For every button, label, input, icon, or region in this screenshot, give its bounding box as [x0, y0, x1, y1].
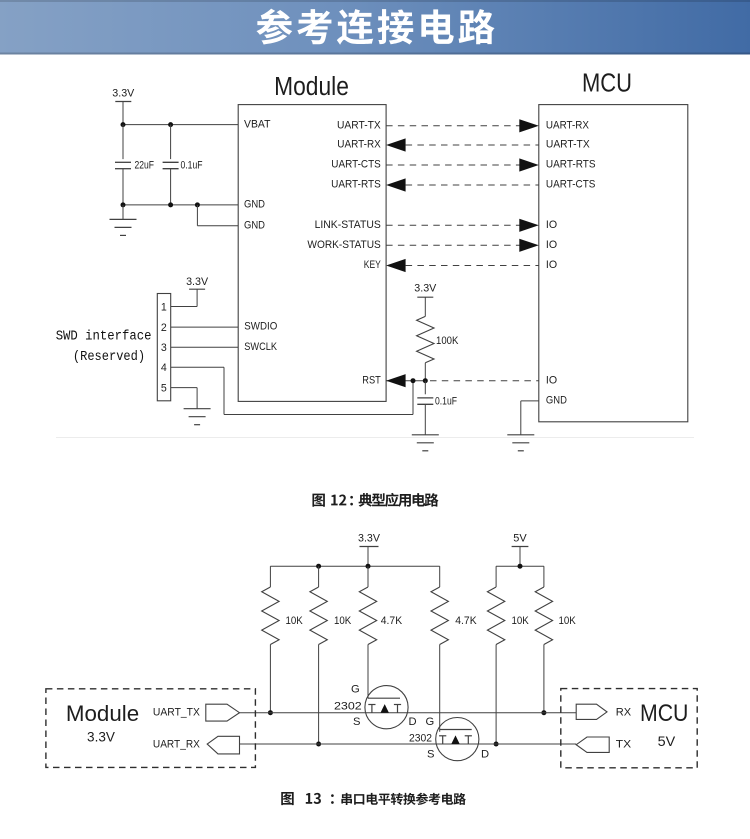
svg-text:UART_TX: UART_TX: [153, 707, 201, 719]
svg-text:KEY: KEY: [364, 259, 381, 271]
svg-text:IO: IO: [546, 239, 557, 251]
svg-text:5V: 5V: [513, 533, 527, 545]
svg-text:VBAT: VBAT: [244, 118, 271, 130]
svg-text:RX: RX: [616, 707, 631, 719]
svg-text:4.7K: 4.7K: [455, 615, 476, 627]
wire MCU GND to ground: [521, 400, 539, 402]
wire UART_RX line: [240, 743, 577, 745]
svg-text:S: S: [353, 716, 360, 728]
svg-text:TX: TX: [616, 739, 631, 751]
svg-text:100K: 100K: [436, 335, 458, 347]
svg-text:GND: GND: [244, 199, 265, 211]
svg-text:WORK-STATUS: WORK-STATUS: [307, 239, 380, 251]
arrow into MCU IO 2: [519, 239, 539, 252]
resistor R4 4.7K: [359, 566, 402, 644]
node R2/TX junction: [268, 710, 273, 715]
node junction GND/C1: [121, 202, 126, 207]
wire pin1 to 3.3V: [171, 306, 197, 308]
wire R7 to TX line: [543, 645, 545, 713]
svg-text:UART-CTS: UART-CTS: [546, 179, 596, 191]
svg-text:GND: GND: [244, 220, 265, 232]
svg-text:5V: 5V: [658, 733, 676, 749]
power rail 3.3V (top left): [112, 88, 135, 125]
resistor R7 10K: [535, 566, 576, 644]
arrow into module RST: [386, 374, 406, 387]
svg-text:3.3V: 3.3V: [87, 729, 115, 745]
wire GND rail to module: [123, 204, 238, 206]
power rail 3.3V (pull-up): [414, 283, 437, 317]
wire 5V rail: [496, 565, 544, 567]
wire pin2 to SWDIO: [171, 326, 239, 328]
svg-text:SWDIO: SWDIO: [244, 321, 277, 333]
page title 参考连接电路: [256, 9, 494, 45]
svg-text:UART-RX: UART-RX: [337, 139, 381, 151]
resistor R5 4.7K: [431, 566, 477, 644]
pin UART_TX symbol: [206, 704, 240, 721]
svg-text:Module: Module: [66, 701, 139, 726]
svg-text:0.1uF: 0.1uF: [181, 160, 203, 172]
power rail 5V: [512, 533, 529, 567]
svg-text:G: G: [426, 716, 435, 728]
power rail 3.3V (SWD): [186, 276, 209, 289]
wire R2 to TX line: [269, 645, 271, 713]
connector J1 box: [157, 294, 170, 401]
svg-text:G: G: [351, 684, 360, 696]
node rail/R4 junction: [366, 564, 371, 569]
wire LINK-STATUS to IO (dashed): [386, 224, 519, 226]
svg-text:SWCLK: SWCLK: [244, 341, 277, 353]
arrow into module UART-RX: [386, 138, 406, 151]
svg-text:10K: 10K: [286, 615, 303, 627]
svg-text:4: 4: [161, 362, 167, 374]
capacitor C3 0.1uF (RST): [417, 381, 457, 435]
wire R3 to RX line: [318, 645, 320, 745]
ground (below C1): [110, 205, 137, 236]
svg-text:3.3V: 3.3V: [358, 533, 381, 545]
svg-text:3: 3: [161, 342, 167, 354]
svg-text:D: D: [481, 749, 489, 761]
svg-text:LINK-STATUS: LINK-STATUS: [315, 219, 381, 231]
wire KEY from IO (dashed): [406, 265, 539, 267]
wire pin3 to SWCLK: [171, 346, 239, 348]
svg-text:RST: RST: [362, 374, 381, 386]
wire WORK-STATUS to IO (dashed): [386, 244, 519, 246]
ground (SWD pin5): [184, 408, 211, 410]
wire R4 to Q1 gate: [367, 645, 369, 699]
node R7/TX junction: [541, 710, 546, 715]
MCU box U2: [539, 105, 688, 422]
node R6/RX junction: [494, 742, 499, 747]
wire pin5 to ground: [171, 387, 197, 389]
wire UART-RX from UART-TX (dashed): [406, 144, 539, 146]
node junction at 3.3V/VBAT: [121, 122, 126, 127]
svg-text:GND: GND: [546, 395, 567, 407]
svg-text:3.3V: 3.3V: [414, 283, 437, 295]
wire R6 to RX line: [495, 645, 497, 745]
node junction GND/C2: [168, 202, 173, 207]
svg-text:S: S: [427, 749, 434, 761]
wire 3.3V rail: [270, 565, 439, 567]
wire to module GND pin 2: [196, 205, 198, 226]
svg-text:UART_RX: UART_RX: [153, 739, 201, 751]
caption 图 12：典型应用电路: [312, 493, 438, 507]
module box U1: [238, 105, 386, 402]
arrow into MCU UART-RTS: [519, 158, 539, 171]
svg-text:5: 5: [161, 383, 167, 395]
svg-text:2302: 2302: [409, 733, 432, 745]
resistor R6 10K: [487, 566, 528, 644]
node junction at 0.1uF top: [168, 122, 173, 127]
svg-text:UART-RTS: UART-RTS: [546, 159, 596, 171]
banner bottom edge: [0, 53, 750, 55]
svg-text:0.1uF: 0.1uF: [435, 395, 457, 407]
svg-text:10K: 10K: [559, 615, 576, 627]
wire VBAT from 3.3V to module: [123, 124, 238, 126]
svg-text:MCU: MCU: [640, 700, 688, 727]
resistor R1 100K: [417, 316, 434, 362]
svg-text:SWD interface: SWD interface: [56, 330, 152, 345]
svg-text:4.7K: 4.7K: [381, 615, 402, 627]
svg-text:10K: 10K: [512, 615, 529, 627]
svg-text:IO: IO: [546, 374, 557, 386]
wire pin4 to RST net: [171, 366, 224, 368]
svg-text:1: 1: [161, 301, 167, 313]
arrow into module UART-RTS: [386, 178, 406, 191]
transistor Q1 2302: [365, 686, 408, 729]
resistor R3 10K: [310, 566, 351, 644]
pin TX symbol: [576, 737, 609, 752]
svg-text:UART-TX: UART-TX: [546, 139, 590, 151]
node rail/R3 junction: [316, 564, 321, 569]
ground (RST C3): [412, 434, 439, 436]
MCU dashed box: [561, 689, 697, 768]
svg-text:3.3V: 3.3V: [112, 88, 135, 100]
svg-text:3.3V: 3.3V: [186, 276, 209, 288]
svg-text:(Reserved): (Reserved): [73, 350, 145, 365]
arrow into MCU IO 1: [519, 219, 539, 232]
wire RST solid segment: [386, 380, 425, 382]
node R3/RX junction: [316, 742, 321, 747]
svg-text:D: D: [409, 716, 417, 728]
svg-text:2: 2: [161, 322, 167, 334]
svg-text:22uF: 22uF: [135, 160, 155, 172]
svg-text:UART-TX: UART-TX: [337, 119, 381, 131]
wire UART-CTS to UART-RTS (dashed): [386, 164, 519, 166]
svg-text:IO: IO: [546, 259, 557, 271]
svg-text:MCU: MCU: [582, 70, 632, 98]
node 5V feed junction: [518, 564, 523, 569]
capacitor C2 0.1uF: [163, 125, 203, 205]
node RST/pin4 junction: [411, 378, 416, 383]
faint separator line: [56, 437, 694, 439]
svg-text:UART-RTS: UART-RTS: [331, 179, 381, 191]
arrow into module KEY: [386, 259, 406, 272]
transistor Q2 2302: [436, 718, 479, 761]
svg-text:IO: IO: [546, 219, 557, 231]
resistor R2 10K: [262, 566, 303, 644]
node junction GND2 tap: [195, 202, 200, 207]
svg-text:Module: Module: [274, 73, 349, 101]
wire UART-RTS from UART-CTS (dashed): [406, 184, 539, 186]
svg-text:2302: 2302: [334, 701, 362, 713]
pin UART_RX symbol: [207, 736, 239, 754]
module dashed box: [46, 689, 256, 768]
wire UART-TX to UART-RX (dashed): [386, 125, 519, 127]
ground (MCU): [507, 434, 534, 436]
svg-text:10K: 10K: [334, 615, 351, 627]
wire RST to MCU IO (dashed): [430, 380, 539, 382]
caption 图 13：串口电平转换参考电路: [281, 792, 466, 805]
svg-text:UART-RX: UART-RX: [546, 119, 589, 131]
wire R1 to RST node: [424, 363, 426, 381]
power rail 3.3V (level shifter): [358, 533, 381, 567]
pin RX symbol: [576, 704, 607, 719]
wire R5 to Q2 gate: [439, 645, 441, 732]
arrow into MCU UART-RX: [519, 119, 539, 132]
svg-text:UART-CTS: UART-CTS: [331, 159, 381, 171]
banner background: [0, 0, 750, 55]
node RST/R1/C3 junction: [423, 378, 428, 383]
wire UART_TX line: [240, 712, 577, 714]
capacitor C1 22uF: [115, 125, 154, 205]
banner top edge: [0, 0, 750, 2]
